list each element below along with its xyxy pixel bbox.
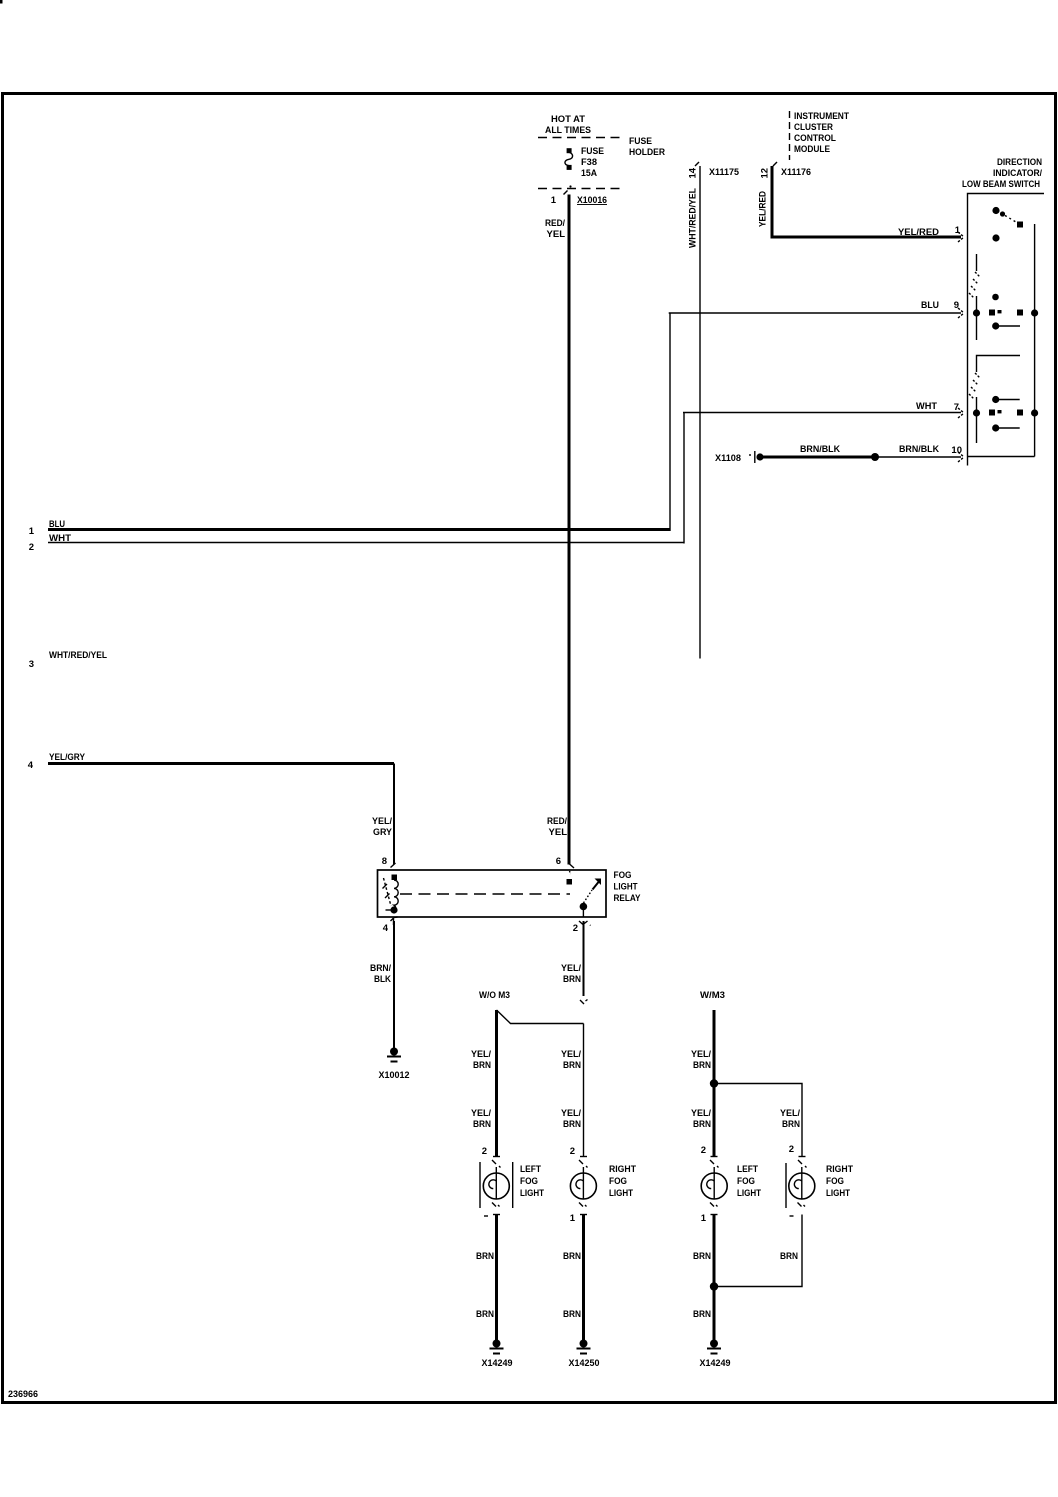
switch section 1 row arrow mark [998, 310, 1002, 313]
switch section 1 row contact square right [1017, 310, 1023, 316]
relay pin 8 entry tick [391, 863, 396, 868]
svg-text:X1108: X1108 [715, 453, 741, 464]
svg-text:FOG: FOG [737, 1176, 755, 1187]
wire YEL/GRY from node 4 to relay pin 8 [48, 762, 394, 765]
svg-text:YEL/: YEL/ [561, 963, 581, 974]
switch section 2 row: shaft dot [973, 409, 980, 416]
svg-text:YEL/: YEL/ [780, 1108, 800, 1119]
fuse holder dashed box top line [538, 137, 625, 139]
wire W/M3 branch main [713, 1010, 716, 1156]
pin 1 of right fog light M3 [790, 1215, 794, 1217]
svg-text:YEL/: YEL/ [471, 1049, 491, 1060]
svg-text:RIGHT: RIGHT [826, 1164, 853, 1175]
svg-text:F38: F38 [581, 157, 597, 168]
svg-text:X10012: X10012 [379, 1070, 410, 1081]
svg-text:BRN: BRN [563, 1060, 581, 1071]
svg-text:BRN: BRN [476, 1251, 494, 1262]
wire branch to right fog light (w/M3) [714, 1084, 802, 1157]
connector X1108 terminal [754, 451, 756, 463]
svg-text:BRN: BRN [563, 974, 581, 985]
wire YEL/BRN from relay pin 2 [583, 921, 585, 996]
svg-text:FOG: FOG [614, 870, 632, 881]
svg-text:X14250: X14250 [569, 1358, 600, 1369]
svg-text:BRN: BRN [563, 1119, 581, 1130]
svg-text:2: 2 [573, 923, 578, 934]
svg-text:W/O M3: W/O M3 [479, 990, 510, 1001]
ground X14249 [490, 1340, 504, 1354]
splice junction dot of ground wires [710, 1282, 718, 1290]
svg-text:CLUSTER: CLUSTER [794, 122, 833, 133]
ground X10012 [387, 1048, 401, 1062]
switch pin1 contact dot [992, 234, 999, 241]
svg-text:RIGHT: RIGHT [609, 1164, 636, 1175]
relay armature dotted section [584, 890, 593, 903]
left fog light bulb [483, 1173, 509, 1199]
fuse F38 15A symbol [565, 148, 573, 170]
svg-text:BRN: BRN [693, 1309, 711, 1320]
svg-text:BRN: BRN [693, 1251, 711, 1262]
inline connector tick on YEL/BRN [580, 1000, 588, 1005]
svg-text:2: 2 [701, 1145, 706, 1156]
svg-text:2: 2 [482, 1146, 487, 1157]
wire WHT/RED/YEL vertical [699, 166, 701, 659]
relay coil winding [394, 880, 398, 912]
wire RED/YEL from fuse to relay pin 6 [568, 195, 571, 865]
svg-text:YEL/: YEL/ [691, 1049, 711, 1060]
switch S1 box outline [968, 194, 1045, 466]
svg-text:BRN/: BRN/ [370, 963, 391, 974]
switch wiper dashed arm [1000, 211, 1005, 216]
lamp E4 RIGHT FOG LIGHT (w/M3) [786, 1144, 815, 1216]
svg-text:W/M3: W/M3 [700, 990, 725, 1001]
switch entry chevron pin 1 [958, 232, 964, 242]
svg-text:FOG: FOG [609, 1176, 627, 1187]
switch pin 10 internal wire [968, 456, 1035, 458]
relay coil bottom terminal dot (pin 4) [390, 906, 397, 913]
switch section 1 lower contact dot with bar [992, 322, 999, 329]
svg-text:BRN: BRN [782, 1119, 800, 1130]
svg-text:FUSE: FUSE [629, 136, 652, 147]
svg-text:LIGHT: LIGHT [609, 1188, 633, 1199]
relay pin 2 exit tick [579, 921, 591, 926]
svg-text:YEL/: YEL/ [372, 816, 392, 827]
svg-text:BRN: BRN [780, 1251, 798, 1262]
relay pin 4 exit tick [391, 917, 398, 925]
lamp E2 RIGHT FOG LIGHT (w/o M3) [570, 1146, 597, 1224]
svg-text:MODULE: MODULE [794, 144, 830, 155]
wire YEL/RED from X11176 to switch pin 1 [772, 166, 961, 237]
switch section 1 actuator shaft [976, 254, 978, 271]
svg-text:10: 10 [951, 445, 962, 456]
svg-text:FOG: FOG [520, 1176, 538, 1187]
svg-text:LIGHT: LIGHT [520, 1188, 544, 1199]
switch section divider bracket [977, 356, 1021, 373]
svg-text:BRN/BLK: BRN/BLK [899, 444, 939, 455]
svg-text:12: 12 [760, 168, 771, 179]
svg-text:BLU: BLU [921, 300, 939, 311]
switch section 2 row contact square right [1017, 410, 1023, 416]
svg-text:CONTROL: CONTROL [794, 133, 836, 144]
switch section 2 row arrow mark [998, 410, 1002, 413]
switch section 1 row contact square [989, 310, 995, 316]
switch section 1 row: shaft dot [973, 309, 980, 316]
svg-text:YEL/: YEL/ [691, 1108, 711, 1119]
svg-text:YEL/RED: YEL/RED [758, 191, 769, 227]
svg-text:INDICATOR/: INDICATOR/ [993, 168, 1042, 179]
wire BRN/BLK thick segment from X1108 [762, 456, 875, 459]
switch entry chevron pin 7 [958, 408, 964, 418]
connector tick at fuse output [564, 191, 568, 195]
svg-text:YEL/RED: YEL/RED [898, 227, 939, 238]
wire W/O M3 branch diagonal [497, 1010, 584, 1024]
switch entry chevron pin 10 [958, 452, 964, 462]
switch section 2 bus junction dot [1031, 409, 1038, 416]
fuse holder dashed box bottom line [538, 188, 625, 190]
wire BRN from right fog light [582, 1215, 585, 1341]
lamp E3 LEFT FOG LIGHT (w/M3) [701, 1145, 727, 1224]
relay pin 6 entry tick [570, 864, 575, 868]
lamp E1 LEFT FOG LIGHT (w/o M3) [480, 1146, 513, 1216]
svg-text:RELAY: RELAY [614, 893, 642, 904]
wire BRN/BLK from relay pin 4 to ground X10012 [393, 921, 395, 1048]
svg-text:BRN: BRN [473, 1119, 491, 1130]
svg-text:YEL/GRY: YEL/GRY [49, 752, 86, 763]
svg-text:RED/: RED/ [547, 816, 567, 827]
wire BRN/BLK thin segment to switch [875, 456, 961, 458]
relay coil terminal square (pin 8) [392, 875, 398, 881]
svg-text:YEL/: YEL/ [471, 1108, 491, 1119]
svg-text:ALL TIMES: ALL TIMES [545, 125, 591, 136]
relay K1 FOG LIGHT RELAY box [378, 870, 607, 917]
switch section 1 upper contact dot [992, 294, 999, 301]
svg-text:6: 6 [556, 856, 561, 867]
svg-text:GRY: GRY [373, 827, 393, 838]
relay common pivot dot (pin 2) [580, 903, 588, 911]
switch section 2 row contact square [989, 410, 995, 416]
svg-text:BRN: BRN [563, 1251, 581, 1262]
svg-text:BRN: BRN [563, 1309, 581, 1320]
svg-text:FOG: FOG [826, 1176, 844, 1187]
svg-text:HOT AT: HOT AT [551, 114, 585, 125]
svg-text:1: 1 [570, 1213, 576, 1224]
svg-text:DIRECTION: DIRECTION [997, 157, 1042, 168]
switch section 2 actuator dashes [969, 373, 980, 399]
scan artifact top-left corner [0, 0, 3, 4]
svg-text:236966: 236966 [8, 1389, 38, 1400]
switch internal right bus wire [1034, 224, 1036, 457]
switch wiper contact square [1017, 222, 1023, 228]
svg-text:WHT/RED/YEL: WHT/RED/YEL [49, 650, 107, 661]
svg-text:YEL: YEL [549, 827, 568, 838]
ground X14250 [577, 1340, 591, 1354]
relay mechanical link dashed line [400, 893, 570, 895]
svg-text:1: 1 [955, 225, 961, 236]
svg-text:YEL: YEL [547, 229, 566, 240]
left fog light connector bars [479, 1162, 481, 1208]
svg-text:X14249: X14249 [700, 1358, 731, 1369]
relay armature arrow [593, 882, 599, 890]
svg-text:2: 2 [29, 542, 34, 553]
svg-text:INSTRUMENT: INSTRUMENT [794, 111, 849, 122]
instrument cluster control module dashed line [789, 111, 791, 160]
svg-text:YEL/: YEL/ [561, 1108, 581, 1119]
svg-text:9: 9 [954, 300, 959, 311]
connector tick at X11176 [773, 162, 777, 166]
switch wiper pivot dot (top) [992, 207, 999, 214]
svg-text:3: 3 [29, 659, 34, 670]
switch section 2 lower contact dot with bar [992, 424, 999, 431]
svg-text:FUSE: FUSE [581, 146, 604, 157]
svg-text:BRN/BLK: BRN/BLK [800, 444, 840, 455]
svg-text:HOLDER: HOLDER [629, 147, 665, 158]
svg-text:1: 1 [701, 1213, 707, 1224]
svg-text:X11175: X11175 [709, 167, 740, 178]
right fog light M3 connector bar [785, 1163, 787, 1208]
svg-text:BRN: BRN [693, 1060, 711, 1071]
svg-text:WHT: WHT [916, 401, 937, 412]
wire W/O M3 branch main [495, 1010, 498, 1156]
svg-text:1: 1 [29, 526, 35, 537]
svg-text:X14249: X14249 [482, 1358, 513, 1369]
svg-text:BRN: BRN [473, 1060, 491, 1071]
relay contact terminal square (pin 6) [567, 879, 573, 885]
svg-text:BLK: BLK [374, 974, 391, 985]
svg-text:2: 2 [789, 1144, 794, 1155]
svg-text:RED/: RED/ [545, 218, 565, 229]
wire BRN from right fog light M3 to junction [714, 1215, 802, 1287]
svg-text:LIGHT: LIGHT [737, 1188, 761, 1199]
svg-text:14: 14 [688, 167, 699, 178]
splice junction dot on BRN/BLK [871, 453, 879, 461]
svg-text:1: 1 [551, 195, 557, 206]
relay pin 2 internal stub [582, 907, 584, 918]
svg-text:7: 7 [954, 402, 959, 413]
ground X14249 (M3) [707, 1340, 721, 1354]
pin 1 of left fog light [484, 1215, 488, 1217]
switch section 2 upper contact dot with bar [992, 396, 999, 403]
wire BRN from left fog light [495, 1215, 498, 1341]
wire WHT from node 2 to switch pin 7 [48, 542, 684, 544]
relay coil left dashes [384, 878, 392, 906]
splice junction dot w/M3 [710, 1079, 718, 1087]
svg-text:2: 2 [570, 1146, 575, 1157]
svg-text:WHT/RED/YEL: WHT/RED/YEL [688, 188, 699, 248]
svg-text:LIGHT: LIGHT [614, 882, 638, 893]
svg-text:4: 4 [28, 760, 34, 771]
svg-text:X11176: X11176 [781, 167, 811, 178]
switch entry chevron pin 9 [958, 308, 964, 318]
svg-text:LEFT: LEFT [520, 1164, 541, 1175]
svg-text:X10016: X10016 [577, 195, 607, 206]
svg-text:8: 8 [382, 856, 387, 867]
svg-text:15A: 15A [581, 168, 597, 179]
right fog light M3 bulb [789, 1173, 815, 1199]
svg-text:LIGHT: LIGHT [826, 1188, 850, 1199]
left fog light M3 bulb [701, 1173, 727, 1199]
wire BRN from left fog light M3 [713, 1215, 716, 1341]
connector tick at X11175 [695, 162, 699, 166]
switch section 1 bus junction dot [1031, 309, 1038, 316]
svg-text:4: 4 [383, 923, 389, 934]
wire YEL/BRN to right fog light (w/o M3) [583, 1024, 585, 1157]
right fog light bulb [570, 1173, 596, 1199]
svg-text:LEFT: LEFT [737, 1164, 758, 1175]
svg-text:BRN: BRN [476, 1309, 494, 1320]
svg-text:LOW BEAM SWITCH: LOW BEAM SWITCH [962, 179, 1040, 190]
wire BLU from node 1 to switch pin 9 [48, 528, 670, 531]
svg-text:BRN: BRN [693, 1119, 711, 1130]
svg-text:YEL/: YEL/ [561, 1049, 581, 1060]
